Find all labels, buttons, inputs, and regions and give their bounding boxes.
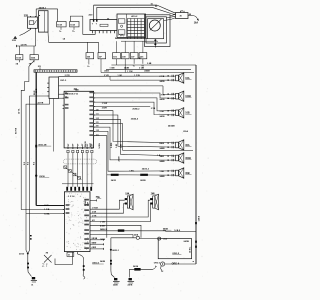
svg-text:2 f: 2 f (42, 263, 48, 269)
svg-text:2 YB: 2 YB (151, 108, 156, 110)
svg-text:14 Y/L: 14 Y/L (17, 108, 20, 114)
svg-text:24/3B: 24/3B (160, 115, 166, 118)
svg-text:1 B/L: 1 B/L (129, 170, 135, 172)
svg-text:2 4B: 2 4B (120, 143, 123, 148)
svg-text:3 W: 3 W (96, 118, 99, 120)
svg-text:2 4B: 2 4B (147, 62, 152, 65)
svg-text:24/2B: 24/2B (100, 260, 106, 263)
svg-text:24/4B: 24/4B (160, 160, 166, 163)
svg-text:30: 30 (65, 93, 67, 95)
svg-text:1 4B: 1 4B (115, 143, 118, 148)
svg-text:24/3B: 24/3B (184, 240, 190, 243)
svg-text:13B/8: 13B/8 (198, 215, 200, 221)
svg-text:ORG 4: ORG 4 (172, 263, 180, 266)
svg-text:1 Y/W: 1 Y/W (134, 75, 140, 77)
svg-text:24/7B: 24/7B (128, 284, 133, 287)
svg-text:24/34B: 24/34B (168, 125, 175, 128)
svg-text:4/10-2: 4/10-2 (131, 15, 138, 18)
svg-text:11/29: 11/29 (57, 25, 62, 27)
svg-text:201A: 201A (183, 130, 188, 133)
svg-text:1 GR: 1 GR (118, 75, 123, 77)
svg-text:B 2: B 2 (28, 162, 30, 165)
svg-text:24/33-2: 24/33-2 (142, 167, 150, 170)
svg-text:3 GR: 3 GR (160, 111, 165, 113)
svg-text:2 Y/R: 2 Y/R (104, 75, 109, 77)
svg-text:2 Y/R: 2 Y/R (65, 75, 71, 77)
svg-text:3 Y/R: 3 Y/R (92, 216, 97, 218)
svg-text:31B: 31B (12, 40, 16, 42)
svg-text:24/4B: 24/4B (144, 69, 150, 72)
svg-text:1 Y/W: 1 Y/W (127, 71, 133, 73)
svg-text:2 B/R: 2 B/R (102, 108, 108, 110)
svg-text:20/46-2: 20/46-2 (132, 107, 140, 110)
svg-text:24 Y/R: 24 Y/R (38, 101, 44, 104)
svg-text:11/29: 11/29 (16, 58, 21, 60)
svg-text:24/4B: 24/4B (160, 175, 166, 178)
svg-text:4 B/R: 4 B/R (100, 225, 105, 228)
svg-text:24/34: 24/34 (133, 265, 139, 268)
svg-text:31: 31 (31, 284, 33, 286)
svg-text:24/3B: 24/3B (160, 80, 166, 83)
svg-text:14 BL: 14 BL (44, 212, 50, 215)
svg-text:GR/SB: GR/SB (92, 238, 98, 240)
svg-text:24/32-1: 24/32-1 (112, 249, 120, 252)
svg-text:32B: 32B (24, 15, 29, 17)
svg-text:RADIO: RADIO (84, 141, 87, 147)
svg-text:11/6: 11/6 (113, 56, 117, 58)
svg-text:SB/R: SB/R (160, 156, 165, 158)
svg-text:24/2B: 24/2B (113, 284, 118, 287)
svg-text:24/35: 24/35 (111, 179, 117, 182)
svg-text:Yc: Yc (133, 66, 135, 68)
svg-text:24/31: 24/31 (104, 70, 110, 73)
svg-text:11/5: 11/5 (140, 56, 144, 58)
svg-text:1 Y/B: 1 Y/B (100, 222, 105, 224)
svg-text:14 B/L: 14 B/L (98, 142, 101, 149)
svg-text:24/3B: 24/3B (160, 98, 166, 101)
svg-text:1 2 3 4: 1 2 3 4 (68, 195, 75, 198)
svg-text:24 B: 24 B (44, 204, 49, 207)
svg-text:BN/R: BN/R (160, 143, 165, 145)
svg-text:31: 31 (68, 255, 70, 257)
svg-text:B 2: B 2 (24, 162, 26, 165)
svg-text:1 SB: 1 SB (160, 171, 165, 173)
svg-text:14 B/L: 14 B/L (189, 246, 192, 253)
svg-text:1 Y/GR: 1 Y/GR (92, 208, 99, 210)
svg-text:2 GR: 2 GR (92, 212, 97, 214)
svg-text:24B/L B: 24B/L B (100, 228, 108, 231)
svg-text:14 B-S: 14 B-S (174, 229, 181, 232)
svg-text:24/3B: 24/3B (140, 179, 146, 182)
svg-text:24/4B: 24/4B (124, 67, 130, 70)
svg-text:4: 4 (192, 261, 195, 262)
svg-text:16A: 16A (194, 21, 199, 24)
svg-text:1 14B: 1 14B (110, 67, 116, 70)
svg-text:11/8: 11/8 (122, 56, 126, 58)
svg-text:SB/W: SB/W (92, 243, 97, 245)
svg-text:ORG 3: ORG 3 (154, 262, 161, 264)
svg-text:24/4B: 24/4B (160, 147, 166, 150)
svg-text:12: 12 (65, 97, 67, 99)
svg-text:24/3B: 24/3B (117, 156, 120, 162)
svg-text:1 Y/W: 1 Y/W (160, 94, 165, 96)
svg-text:1 Y/W: 1 Y/W (102, 103, 108, 105)
svg-text:2 14B: 2 14B (139, 67, 145, 70)
svg-text:23/10: 23/10 (19, 254, 25, 256)
svg-text:B4 Y/B: B4 Y/B (15, 127, 18, 134)
svg-text:4 B/R: 4 B/R (92, 246, 97, 249)
svg-text:14 Y/R: 14 Y/R (21, 43, 28, 46)
svg-text:2 Y/B: 2 Y/B (160, 76, 165, 78)
svg-text:11/7: 11/7 (131, 56, 135, 58)
